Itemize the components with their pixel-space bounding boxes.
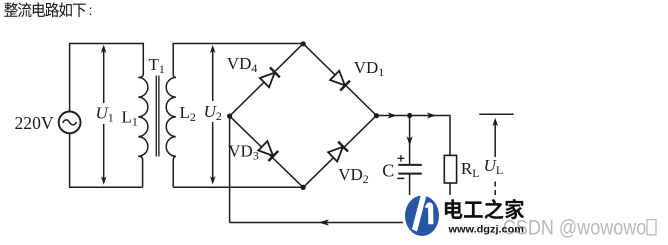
svg-text:www.dgzj.com: www.dgzj.com — [447, 224, 524, 235]
svg-text:CSDN @wowowo: CSDN @wowowo — [503, 217, 647, 240]
svg-text::: : — [89, 2, 93, 18]
svg-text:C: C — [382, 161, 394, 181]
svg-text:220V: 220V — [15, 113, 54, 133]
